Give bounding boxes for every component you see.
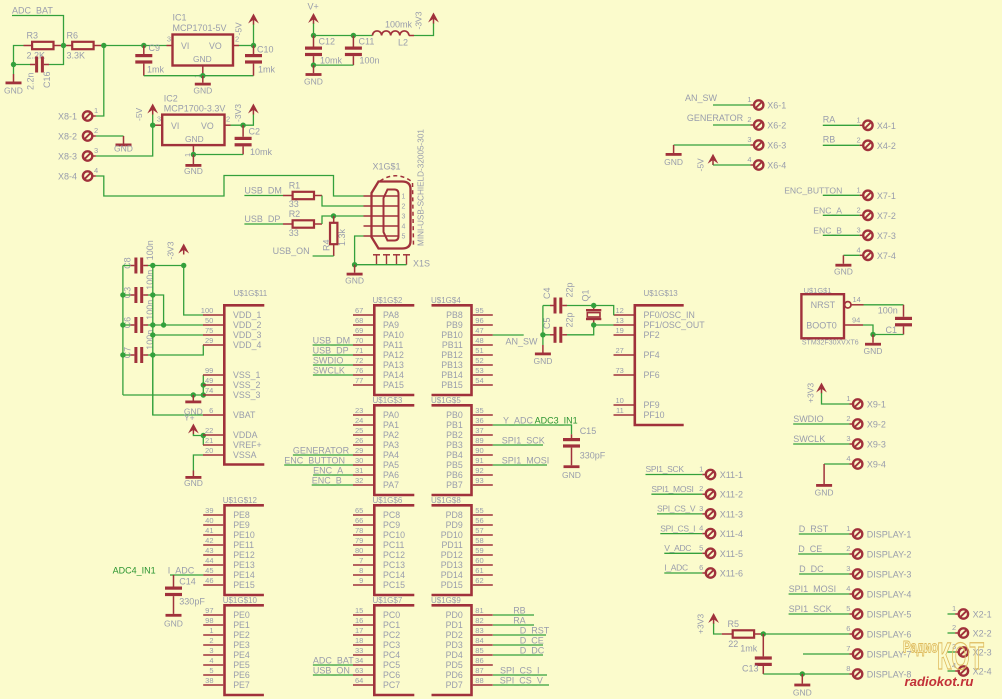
junction 3V3 rail (150, 292, 155, 297)
svg-text:PF0/OSC_IN: PF0/OSC_IN (644, 310, 695, 320)
wire X7-4 to gnd (843, 254, 859, 256)
junction at GND/C16/R3 (11, 62, 16, 67)
resistor R1 (293, 192, 314, 199)
pin 4 PE5 of U$1G$10 (203, 664, 223, 666)
svg-text:1: 1 (846, 524, 850, 533)
wire SWCLK (313, 374, 353, 376)
svg-text:USB_DP: USB_DP (313, 345, 349, 355)
junction C12 bottom (311, 62, 316, 67)
wire SPI_CS_I (493, 674, 547, 676)
svg-text:RB: RB (513, 605, 526, 615)
wire AN_SW (493, 334, 524, 336)
svg-text:D_RST: D_RST (799, 524, 829, 534)
svg-text:3: 3 (94, 146, 98, 155)
pin 2 PE3 of U$1G$10 (203, 644, 223, 646)
junction C9/IC1 input (141, 43, 146, 48)
svg-text:C9: C9 (149, 43, 161, 53)
svg-text:2: 2 (209, 636, 213, 645)
capacitor C7 (134, 347, 137, 363)
svg-text:VO: VO (209, 41, 222, 51)
svg-text:4: 4 (209, 656, 213, 665)
svg-text:98: 98 (205, 616, 213, 625)
svg-text:VSS_2: VSS_2 (233, 380, 260, 390)
svg-text:C8: C8 (122, 257, 132, 269)
svg-text:X7-4: X7-4 (877, 251, 896, 261)
wire X8-1 to R6 node (96, 46, 104, 117)
svg-text:-5V: -5V (134, 107, 144, 121)
svg-text:GND: GND (533, 356, 552, 366)
svg-text:PB7: PB7 (446, 480, 463, 490)
svg-text:PC6: PC6 (383, 670, 400, 680)
svg-text:GENERATOR: GENERATOR (293, 445, 350, 455)
svg-text:37: 37 (475, 426, 483, 435)
svg-text:35: 35 (475, 406, 483, 415)
svg-text:4: 4 (846, 584, 850, 593)
svg-text:DISPLAY-3: DISPLAY-3 (867, 570, 912, 580)
capacitor C13 (762, 634, 764, 656)
svg-text:3: 3 (846, 434, 850, 443)
pin 84 PD3 of U$1G$9 (473, 644, 493, 646)
svg-text:PE3: PE3 (233, 640, 250, 650)
resistor R2 (293, 220, 314, 227)
junction C11/L2 (351, 33, 356, 38)
svg-text:VSSA: VSSA (233, 450, 257, 460)
svg-text:330pF: 330pF (179, 597, 205, 607)
svg-text:PC0: PC0 (383, 610, 400, 620)
svg-text:D_CE: D_CE (798, 544, 822, 554)
svg-text:IC1: IC1 (173, 13, 187, 23)
svg-text:17: 17 (355, 626, 363, 635)
junction IC1 GND (200, 73, 205, 78)
svg-text:U$1G$5: U$1G$5 (431, 396, 461, 405)
svg-text:PD1: PD1 (446, 620, 463, 630)
svg-text:C16: C16 (42, 71, 52, 88)
wire R3 left to C16 (14, 46, 24, 65)
svg-text:PA15: PA15 (383, 380, 404, 390)
connector pad DISPLAY-3 (853, 569, 862, 578)
svg-text:DISPLAY-2: DISPLAY-2 (867, 550, 912, 560)
wire ENC_B (312, 484, 353, 486)
svg-text:38: 38 (205, 676, 213, 685)
svg-text:5: 5 (699, 543, 703, 552)
svg-text:MINI-USB-SCHIELD-32005-301: MINI-USB-SCHIELD-32005-301 (417, 129, 426, 246)
svg-text:DISPLAY-5: DISPLAY-5 (867, 610, 912, 620)
wire stub X2-2 (948, 632, 956, 634)
pin 49 VSS_2 of U$1G$11 (203, 384, 223, 386)
svg-text:X6-1: X6-1 (767, 101, 786, 111)
capacitor C2 (242, 125, 244, 137)
svg-text:DISPLAY-4: DISPLAY-4 (867, 590, 912, 600)
svg-text:PD5: PD5 (446, 660, 463, 670)
wire IC2 VO to +3V3 (231, 115, 254, 126)
svg-text:VSS_1: VSS_1 (233, 370, 260, 380)
pin 41 PE10 of U$1G$12 (203, 534, 223, 536)
svg-text:19: 19 (615, 326, 623, 335)
pin 53 PB14 of U$1G$4 (473, 374, 493, 376)
pin 50 VDD_2 of U$1G$11 (203, 324, 223, 326)
wire I_ADC (170, 574, 203, 576)
connector pad X2-1 (959, 609, 968, 618)
svg-text:10mk: 10mk (250, 147, 273, 157)
svg-text:-5V: -5V (234, 22, 244, 36)
svg-text:36: 36 (475, 416, 483, 425)
wire NRST to C1 (864, 304, 904, 306)
svg-text:1: 1 (699, 465, 703, 474)
svg-text:PA10: PA10 (383, 330, 404, 340)
svg-text:55: 55 (475, 506, 483, 515)
wire ENC_BUTTON to X7 (823, 194, 860, 196)
svg-text:PB13: PB13 (441, 360, 463, 370)
shield dashed outline (380, 176, 414, 247)
junction GND stem (191, 392, 196, 397)
junction BOOT0/C1/GND (870, 332, 875, 337)
svg-text:2: 2 (857, 135, 861, 144)
svg-text:2: 2 (94, 126, 98, 135)
connector pad DISPLAY-6 (853, 629, 862, 638)
pin 1 of X1G$1 (364, 195, 399, 197)
svg-text:9: 9 (359, 576, 363, 585)
capacitor C9 (135, 54, 152, 57)
capacitor C3 (134, 287, 137, 303)
svg-text:PE5: PE5 (233, 660, 250, 670)
svg-text:22: 22 (728, 639, 738, 649)
connector pad DISPLAY-7 (853, 649, 862, 658)
pin 37 PB2 of U$1G$5 (473, 434, 493, 436)
wire ENC_A to X7 (823, 214, 860, 216)
ground at X6-3 (673, 145, 675, 153)
svg-text:ADC4_IN1: ADC4_IN1 (113, 566, 156, 576)
IC block U$1G$10 outline (225, 605, 264, 695)
wire C2 to IC2 ground (193, 154, 243, 156)
pin 94 BOOT0 of U$1G$1 (844, 324, 863, 326)
connector pad X11-6 (706, 568, 715, 577)
pin 55 PD8 of U$1G$8 (473, 514, 493, 516)
pin 7 PC13 of U$1G$6 (353, 564, 373, 566)
svg-text:C2: C2 (249, 127, 261, 137)
connector pad X8-4 (83, 171, 92, 180)
svg-text:X6-4: X6-4 (767, 161, 786, 171)
svg-text:5: 5 (402, 234, 406, 241)
svg-text:RB: RB (823, 135, 836, 145)
wire to +3V3 arrow (153, 265, 184, 267)
IC block U$1G$9 outline (432, 605, 472, 695)
supply -3V3 at IC2 output (248, 104, 259, 114)
IC block U$1G$4 outline (432, 305, 472, 395)
svg-text:95: 95 (475, 306, 483, 315)
wire X6-4 supply stem (712, 164, 714, 166)
svg-text:66: 66 (355, 516, 363, 525)
svg-text:2: 2 (699, 484, 703, 493)
pin 29 VDD_4 of U$1G$11 (203, 344, 223, 346)
svg-text:100mk: 100mk (385, 20, 413, 30)
svg-text:PC5: PC5 (383, 660, 400, 670)
svg-text:X9-2: X9-2 (867, 420, 886, 430)
capacitor C10 (245, 54, 262, 57)
pin 62 PD15 of U$1G$8 (473, 584, 493, 586)
junction Q1 top (591, 303, 596, 308)
svg-text:U$1G$10: U$1G$10 (223, 596, 258, 605)
pin 70 PA11 of U$1G$2 (353, 344, 373, 346)
pin 83 PD2 of U$1G$9 (473, 634, 493, 636)
junction R4/D+ (331, 213, 336, 218)
svg-text:U$1G$9: U$1G$9 (431, 596, 461, 605)
svg-text:GND: GND (345, 276, 364, 286)
svg-text:GND: GND (164, 619, 183, 629)
wire stub X2-3 (948, 651, 956, 653)
ground at U$1G$1 (872, 335, 874, 343)
svg-text:R5: R5 (728, 619, 740, 629)
connector pad X6-3 (754, 140, 763, 149)
svg-text:75: 75 (205, 326, 213, 335)
svg-text:VDDA: VDDA (233, 430, 258, 440)
svg-text:58: 58 (475, 536, 483, 545)
svg-text:PB14: PB14 (441, 370, 463, 380)
svg-text:1: 1 (857, 115, 861, 124)
svg-text:96: 96 (475, 316, 483, 325)
pin 86 PD5 of U$1G$9 (473, 664, 493, 666)
svg-text:3: 3 (747, 135, 751, 144)
svg-text:NRST: NRST (811, 300, 836, 310)
svg-text:1: 1 (402, 194, 406, 201)
junction R3/R6/ADC_BAT (61, 43, 66, 48)
pin 5 PE6 of U$1G$10 (203, 674, 223, 676)
svg-text:92: 92 (475, 466, 483, 475)
pin 4 of X1G$1 (364, 225, 399, 227)
svg-text:PD4: PD4 (446, 650, 463, 660)
svg-text:X7-3: X7-3 (877, 231, 896, 241)
svg-text:PB1: PB1 (446, 420, 463, 430)
svg-text:1: 1 (94, 106, 98, 115)
svg-text:29: 29 (205, 336, 213, 345)
svg-text:ENC_BUTTON: ENC_BUTTON (284, 455, 345, 465)
svg-text:33: 33 (355, 646, 363, 655)
shield pin X1S (403, 254, 410, 256)
svg-text:GND: GND (114, 144, 133, 154)
wire USB GND/shield (355, 236, 407, 265)
svg-text:34: 34 (355, 656, 363, 665)
pin 32 PA7 of U$1G$3 (353, 484, 373, 486)
svg-text:MCP1700-3.3V: MCP1700-3.3V (164, 104, 226, 114)
svg-text:-5V: -5V (696, 158, 706, 172)
pin 60 PD13 of U$1G$8 (473, 564, 493, 566)
junction 3V3 rail (150, 322, 155, 327)
supply +3V3 at X9-1 (816, 383, 827, 393)
svg-text:24: 24 (355, 416, 363, 425)
svg-text:PA5: PA5 (383, 460, 399, 470)
svg-text:100n: 100n (878, 306, 898, 316)
svg-text:PA12: PA12 (383, 350, 404, 360)
svg-text:SPI1_SCK: SPI1_SCK (789, 604, 832, 614)
svg-text:STM32F30XVXT6: STM32F30XVXT6 (802, 339, 859, 346)
svg-text:U$1G$8: U$1G$8 (431, 496, 461, 505)
pin 47 PB10 of U$1G$4 (473, 334, 493, 336)
pin 8 PC14 of U$1G$6 (353, 574, 373, 576)
resistor R6 (72, 42, 93, 49)
svg-text:VDD_1: VDD_1 (233, 310, 261, 320)
svg-text:SWCLK: SWCLK (313, 365, 345, 375)
svg-text:10: 10 (615, 396, 623, 405)
svg-text:SPI_CS_V: SPI_CS_V (500, 675, 543, 685)
svg-text:ENC_A: ENC_A (313, 465, 343, 475)
svg-text:PF1/OSC_OUT: PF1/OSC_OUT (644, 320, 706, 330)
wire GENERATOR (293, 454, 353, 456)
pin 3 of IC1 (167, 45, 173, 47)
svg-text:X6-3: X6-3 (767, 141, 786, 151)
svg-text:70: 70 (355, 336, 363, 345)
shield pin X1S (383, 254, 390, 256)
pin 30 PA5 of U$1G$3 (353, 464, 373, 466)
svg-text:PF2: PF2 (644, 330, 660, 340)
wire V+ down (313, 24, 315, 36)
svg-text:PB9: PB9 (446, 320, 463, 330)
wire ADC_BAT to R3/R6 node (12, 16, 64, 46)
wire ENC_B to X7 (823, 234, 860, 236)
pin 68 PA9 of U$1G$2 (353, 324, 373, 326)
svg-text:20: 20 (205, 446, 213, 455)
svg-text:2: 2 (226, 115, 230, 124)
wire USB_DM (313, 344, 353, 346)
svg-text:PE15: PE15 (233, 580, 255, 590)
svg-text:4: 4 (402, 224, 406, 231)
wire D_DC (493, 654, 543, 656)
svg-text:PD9: PD9 (446, 520, 463, 530)
svg-text:MCP1701-5V: MCP1701-5V (173, 23, 227, 33)
svg-text:ENC_A: ENC_A (813, 206, 842, 216)
svg-text:VDD_2: VDD_2 (233, 320, 261, 330)
svg-text:X8-3: X8-3 (58, 151, 77, 161)
wire C8 right (148, 265, 153, 267)
svg-text:X11-1: X11-1 (720, 470, 743, 480)
capacitor C4 (554, 298, 557, 314)
wire I_ADC to X11 (664, 572, 702, 574)
svg-text:USB_ON: USB_ON (313, 665, 350, 675)
connector pad X7-4 (863, 251, 872, 260)
svg-text:X11-3: X11-3 (720, 509, 743, 519)
pin 72 PA13 of U$1G$2 (353, 364, 373, 366)
wire D_CE to DISPLAY (798, 553, 849, 555)
ground at C15 (564, 465, 580, 468)
svg-text:5: 5 (846, 604, 850, 613)
ground at X9-4 (823, 464, 825, 484)
junction gnd rail (120, 292, 125, 297)
wire USB_DM (244, 195, 283, 197)
wire IC2 VI to -5V (152, 115, 154, 126)
svg-text:PA3: PA3 (383, 440, 399, 450)
connector pad X6-1 (754, 100, 763, 109)
pin 61 PD14 of U$1G$8 (473, 574, 493, 576)
pin 5 of X1G$1 (364, 235, 399, 237)
svg-text:52: 52 (475, 356, 483, 365)
wire L2 to +3V3 (414, 23, 434, 36)
svg-text:27: 27 (615, 346, 623, 355)
svg-text:R2: R2 (289, 209, 301, 219)
connector pad X4-2 (863, 141, 872, 150)
svg-text:6: 6 (209, 406, 213, 415)
svg-text:1.3k: 1.3k (337, 228, 347, 246)
capacitor C16 (35, 57, 38, 73)
pin 56 PD9 of U$1G$8 (473, 524, 493, 526)
junction gnd rail (120, 322, 125, 327)
pin 25 PA2 of U$1G$3 (353, 434, 373, 436)
svg-text:4: 4 (747, 155, 751, 164)
junction R5/C13 (761, 631, 766, 636)
svg-text:PC8: PC8 (383, 510, 400, 520)
svg-text:C14: C14 (179, 577, 196, 587)
pin 1 PE2 of U$1G$10 (203, 634, 223, 636)
svg-text:7: 7 (359, 556, 363, 565)
pin 17 PC2 of U$1G$7 (353, 634, 373, 636)
svg-text:D_DC: D_DC (799, 564, 824, 574)
svg-text:78: 78 (355, 526, 363, 535)
pin 100 VDD_1 of U$1G$11 (203, 314, 223, 316)
svg-text:GND: GND (193, 86, 212, 96)
pin 81 PD0 of U$1G$9 (473, 614, 493, 616)
svg-text:45: 45 (205, 566, 213, 575)
svg-text:X1G$1: X1G$1 (373, 162, 401, 172)
connector pad X11-3 (706, 509, 715, 518)
shield pin X1S (393, 254, 400, 256)
svg-text:PB12: PB12 (441, 350, 463, 360)
svg-text:69: 69 (355, 326, 363, 335)
svg-text:3: 3 (167, 35, 171, 44)
svg-text:U$1G$7: U$1G$7 (373, 596, 403, 605)
svg-text:41: 41 (205, 526, 213, 535)
wire BOOT0 to gnd (863, 325, 873, 335)
capacitor C11 (345, 47, 362, 50)
svg-text:3: 3 (402, 214, 406, 221)
svg-text:43: 43 (205, 546, 213, 555)
svg-text:3: 3 (857, 225, 861, 234)
svg-text:PC9: PC9 (383, 520, 400, 530)
connector pad X8-1 (83, 111, 92, 120)
wire D_CE (493, 644, 543, 646)
connector pad X11-1 (706, 470, 715, 479)
pin 33 PC4 of U$1G$7 (353, 654, 373, 656)
wire VDD_4 (153, 345, 204, 355)
svg-text:42: 42 (205, 536, 213, 545)
svg-text:PA9: PA9 (383, 320, 399, 330)
pin 89 PB3 of U$1G$5 (473, 444, 493, 446)
svg-text:U$1G$12: U$1G$12 (223, 496, 258, 505)
junction VDDA (201, 433, 206, 438)
wire X6-4 (713, 164, 750, 166)
pin 21 VREF+ of U$1G$11 (203, 444, 223, 446)
svg-text:C11: C11 (359, 37, 375, 47)
svg-text:VDD_4: VDD_4 (233, 340, 261, 350)
pin 46 PE15 of U$1G$12 (203, 584, 223, 586)
wire GND rail left of caps (122, 266, 124, 396)
pin 58 PD11 of U$1G$8 (473, 544, 493, 546)
svg-text:PC11: PC11 (383, 540, 404, 550)
pin 97 PE0 of U$1G$10 (203, 614, 223, 616)
svg-text:100: 100 (201, 306, 214, 315)
svg-text:GND: GND (184, 407, 203, 417)
connector pad X11-5 (706, 549, 715, 558)
pin 66 PC9 of U$1G$6 (353, 524, 373, 526)
svg-text:3: 3 (846, 564, 850, 573)
junction IC2 GND (191, 152, 196, 157)
pin 93 PB7 of U$1G$5 (473, 484, 493, 486)
pin 23 PA0 of U$1G$3 (353, 414, 373, 416)
svg-text:GND: GND (184, 166, 203, 176)
svg-text:79: 79 (355, 536, 363, 545)
supply +3V3 at R5 (708, 613, 719, 623)
svg-text:GND: GND (185, 134, 204, 144)
svg-text:PC15: PC15 (383, 580, 405, 590)
resistor R5 (733, 630, 754, 637)
svg-text:ENC_B: ENC_B (312, 475, 342, 485)
svg-text:18: 18 (355, 636, 363, 645)
